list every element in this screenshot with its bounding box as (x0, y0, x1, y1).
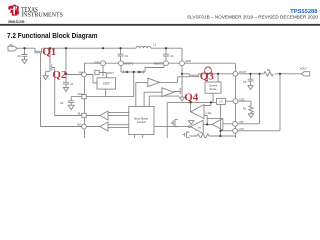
svg-text:ISP: ISP (240, 121, 244, 124)
svg-text:Current: Current (209, 85, 218, 88)
svg-text:Q3: Q3 (200, 71, 215, 83)
svg-text:R1: R1 (243, 107, 247, 110)
svg-text:Buck Boost: Buck Boost (135, 117, 149, 121)
svg-text:VOUT: VOUT (107, 72, 114, 75)
svg-text:Int: Int (198, 126, 201, 129)
svg-text:Sense: Sense (209, 88, 217, 91)
svg-text:www.ti.com: www.ti.com (7, 19, 24, 24)
svg-text:VIN: VIN (9, 44, 13, 47)
svg-text:DL: DL (78, 112, 82, 115)
svg-text:C4: C4 (170, 54, 174, 58)
svg-text:C6: C6 (243, 80, 247, 84)
svg-text:Cin: Cin (17, 55, 21, 58)
svg-text:VOUT: VOUT (300, 67, 308, 71)
svg-text:DH: DH (77, 123, 81, 126)
svg-text:SW1: SW1 (94, 61, 100, 65)
svg-text:Q2: Q2 (52, 69, 67, 81)
svg-text:7.2 Functional Block Diagram: 7.2 Functional Block Diagram (7, 31, 98, 40)
svg-text:Rs: Rs (267, 68, 271, 72)
svg-text:L1: L1 (153, 43, 157, 47)
svg-text:BOOT1: BOOT1 (124, 62, 133, 66)
svg-text:INSTRUMENTS: INSTRUMENTS (21, 12, 63, 18)
svg-text:Control: Control (137, 120, 146, 124)
svg-text:1 V: 1 V (219, 101, 223, 104)
svg-text:VCC: VCC (77, 92, 83, 96)
svg-text:C2: C2 (60, 101, 64, 105)
svg-text:Q1: Q1 (42, 46, 56, 58)
svg-text:VOUT: VOUT (239, 70, 247, 74)
svg-text:SW2: SW2 (185, 59, 191, 63)
svg-text:C3: C3 (125, 54, 129, 58)
svg-text:CDC: CDC (239, 97, 245, 101)
svg-text:ISN: ISN (240, 128, 244, 131)
svg-text:L Sat: L Sat (206, 112, 212, 115)
svg-text:LDO: LDO (103, 82, 110, 86)
svg-text:C1: C1 (70, 82, 74, 86)
svg-text:Q4: Q4 (184, 91, 199, 103)
svg-text:VIN: VIN (78, 70, 82, 74)
svg-text:BOOT2: BOOT2 (154, 62, 163, 66)
svg-text:SLVSF01B – NOVEMBER 2019 – REV: SLVSF01B – NOVEMBER 2019 – REVISED DECEM… (187, 15, 319, 20)
